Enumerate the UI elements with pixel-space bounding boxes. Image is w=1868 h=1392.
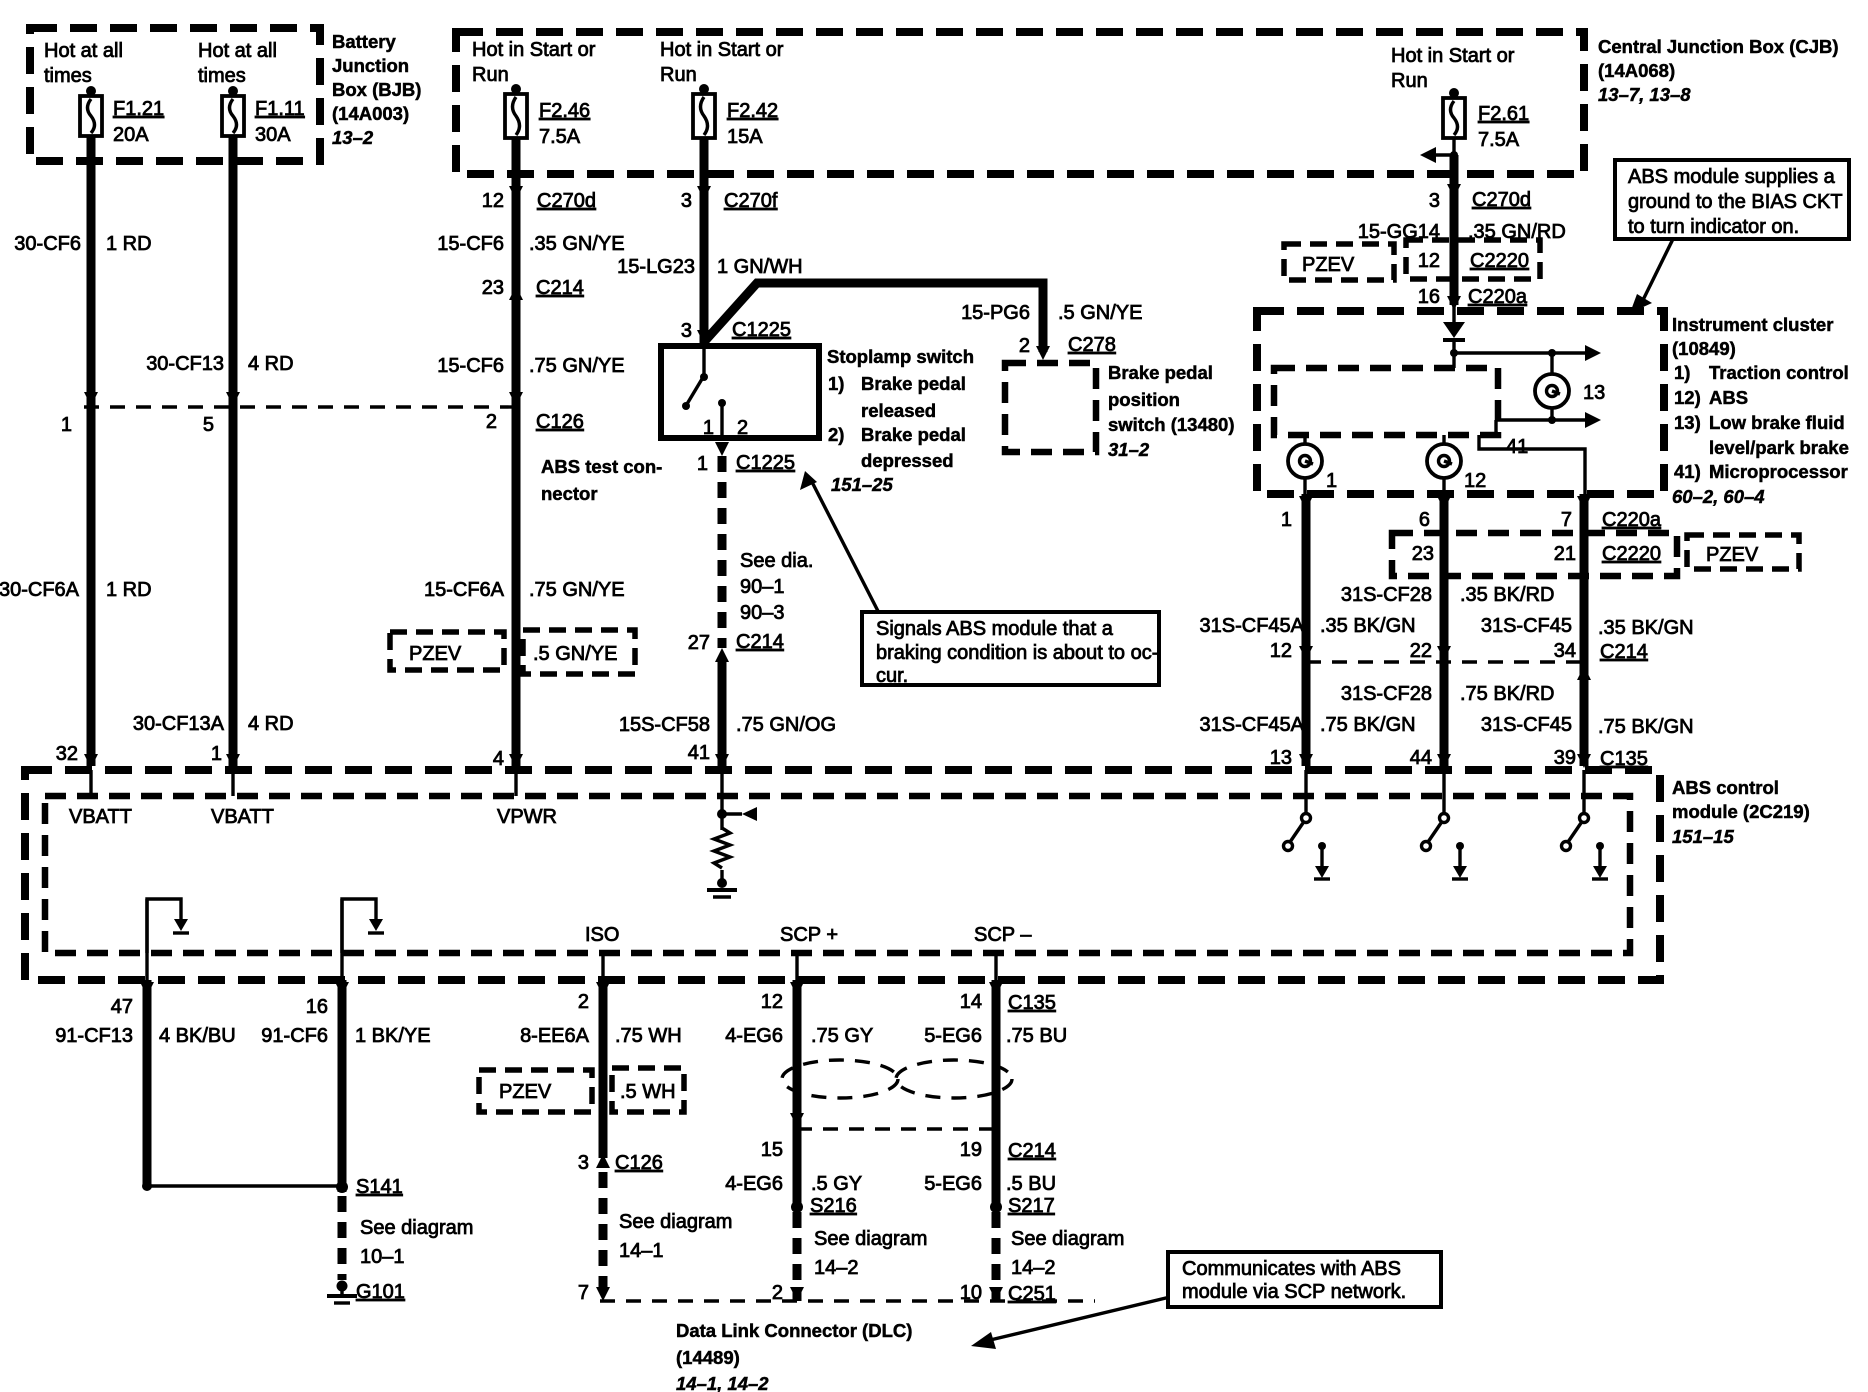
svg-text:See dia.: See dia.	[740, 550, 813, 572]
svg-text:27: 27	[688, 632, 710, 654]
splice S217	[990, 1195, 1124, 1279]
node VPWR pin 4 stub	[497, 770, 557, 828]
svg-text:4 BK/BU: 4 BK/BU	[159, 1025, 236, 1047]
svg-text:PZEV: PZEV	[409, 643, 462, 665]
svg-text:ABS module supplies a: ABS module supplies a	[1628, 166, 1836, 188]
stub wire pin 16	[340, 899, 343, 980]
PZEV option box (C2220)	[1687, 535, 1799, 569]
svg-text:7.5A: 7.5A	[1478, 129, 1520, 151]
svg-text:.75 WH: .75 WH	[615, 1025, 682, 1047]
wire 30-CF6 1 RD (F1.21 to ABS module pin 32)	[0, 136, 152, 768]
svg-text:1 RD: 1 RD	[106, 233, 152, 255]
svg-text:1: 1	[697, 453, 708, 475]
wire 15-PG6 .5 GN/YE (branch to brake pedal position switch)	[704, 283, 1142, 360]
svg-text:(14A003): (14A003)	[332, 103, 409, 124]
wire label 15-CF6 .35 GN/YE	[437, 233, 624, 255]
svg-text:5-EG6: 5-EG6	[924, 1173, 982, 1195]
svg-text:F2.46: F2.46	[539, 100, 590, 122]
callout: Signals ABS module note with arrow to C1225	[800, 471, 1159, 687]
svg-text:44: 44	[1410, 747, 1432, 769]
svg-text:See diagram: See diagram	[360, 1217, 473, 1239]
svg-text:21: 21	[1554, 543, 1576, 565]
node Hot at all times (fuse F1.11 feed)	[198, 40, 277, 87]
svg-text:.75 GN/YE: .75 GN/YE	[529, 355, 625, 377]
svg-text:Microprocessor: Microprocessor	[1709, 461, 1848, 482]
svg-text:10–1: 10–1	[360, 1246, 405, 1268]
svg-text:Junction: Junction	[332, 55, 409, 76]
pin 3 connector C270d	[1429, 189, 1531, 212]
wire 31S-CF45 BK/GN (cluster pin 7 to ABS module pin 39)	[1481, 494, 1694, 768]
svg-text:2: 2	[486, 411, 497, 433]
svg-text:13): 13)	[1674, 412, 1701, 433]
svg-text:2: 2	[772, 1282, 783, 1304]
svg-text:Signals ABS module that a: Signals ABS module that a	[876, 618, 1114, 640]
svg-text:.75 GN/YE: .75 GN/YE	[529, 579, 625, 601]
fuse F2.61 7.5A	[1443, 88, 1529, 151]
wire 41 microprocessor to pin 7	[1479, 435, 1585, 494]
svg-text:31S-CF28: 31S-CF28	[1341, 683, 1432, 705]
svg-text:See diagram: See diagram	[619, 1211, 732, 1233]
svg-text:90–1: 90–1	[740, 576, 785, 598]
svg-text:times: times	[198, 65, 246, 87]
svg-text:C270d: C270d	[537, 190, 596, 212]
svg-text:47: 47	[111, 996, 133, 1018]
node Hot in Start or Run (F2.46 feed)	[472, 39, 596, 86]
node Hot at all times (fuse F1.21 feed)	[44, 40, 123, 87]
node Hot in Start or Run (F2.61 feed)	[1391, 45, 1515, 92]
wire label 15-CF6 .75 GN/YE	[437, 355, 624, 377]
indicator lamp 1 traction control	[1288, 435, 1337, 494]
Central Junction Box (CJB) 14A068 dashed enclosure	[456, 32, 1839, 174]
svg-text:12): 12)	[1674, 387, 1701, 408]
wire splice link S141 horizontal	[147, 1184, 342, 1187]
svg-text:14: 14	[960, 991, 982, 1013]
svg-text:4 RD: 4 RD	[248, 353, 294, 375]
svg-text:4-EG6: 4-EG6	[725, 1025, 783, 1047]
svg-text:14–2: 14–2	[1011, 1257, 1056, 1279]
pin 34 connector C214	[1554, 640, 1648, 663]
svg-text:15-PG6: 15-PG6	[961, 302, 1030, 324]
node BIAS pin 41 with branch arrow	[717, 770, 757, 830]
svg-text:C214: C214	[1600, 641, 1648, 663]
svg-text:braking condition is about to: braking condition is about to oc-	[876, 642, 1158, 664]
wire 30-CF13 4 RD (F1.11 to ABS module pin 1)	[133, 136, 294, 768]
svg-text:7: 7	[1561, 509, 1572, 531]
wire 15S-CF58 .75 GN/OG (stoplamp switch to ABS module pin 41)	[619, 456, 836, 768]
svg-text:G101: G101	[356, 1281, 405, 1303]
svg-text:6: 6	[1419, 509, 1430, 531]
PZEV wire value box .5 WH	[612, 1068, 684, 1112]
svg-text:31S-CF28: 31S-CF28	[1341, 584, 1432, 606]
svg-text:VBATT: VBATT	[211, 806, 274, 828]
resistor (BIAS pull-up)	[714, 828, 730, 868]
svg-text:1): 1)	[1674, 362, 1690, 383]
wire 5-EG6 BU (SCP- to DLC pin 10)	[924, 980, 1067, 1301]
svg-text:Brake pedal: Brake pedal	[1108, 362, 1213, 383]
svg-text:19: 19	[960, 1139, 982, 1161]
svg-text:ground to the BIAS CKT: ground to the BIAS CKT	[1628, 191, 1843, 213]
svg-text:S217: S217	[1008, 1195, 1055, 1217]
svg-text:15-CF6: 15-CF6	[437, 355, 504, 377]
svg-text:.35 GN/YE: .35 GN/YE	[529, 233, 625, 255]
wire F2.61 output with branch arrow inside CJB	[1420, 138, 1458, 163]
svg-text:30-CF13A: 30-CF13A	[133, 713, 225, 735]
svg-text:8-EE6A: 8-EE6A	[520, 1025, 590, 1047]
connector C2220 dashed box pins 23 / 21	[1392, 533, 1677, 576]
svg-text:41: 41	[688, 742, 710, 764]
svg-text:31S-CF45: 31S-CF45	[1481, 714, 1572, 736]
svg-text:13: 13	[1583, 382, 1605, 404]
svg-text:ABS control: ABS control	[1672, 777, 1779, 798]
pin 2 connector C126	[486, 411, 584, 433]
ABS control module (2C219) outer dashed enclosure	[25, 770, 1810, 980]
wire label 15-CF6A .75 GN/YE	[424, 579, 625, 601]
svg-text:.5 GN/YE: .5 GN/YE	[533, 643, 617, 665]
PZEV option box (ISO wire)	[479, 1070, 592, 1112]
svg-text:15-CF6: 15-CF6	[437, 233, 504, 255]
svg-text:1): 1)	[828, 373, 844, 394]
svg-text:C1225: C1225	[732, 319, 791, 341]
wire 15-LG23 1 GN/WH (F2.42 to stoplamp switch)	[617, 138, 802, 346]
svg-text:Central Junction Box (CJB): Central Junction Box (CJB)	[1598, 36, 1839, 57]
svg-text:F1.21: F1.21	[113, 98, 164, 120]
svg-text:F2.42: F2.42	[727, 100, 778, 122]
svg-text:32: 32	[56, 743, 78, 765]
svg-text:1: 1	[1326, 470, 1337, 492]
node VBATT pin 1 stub	[211, 770, 274, 828]
PZEV option box (VPWR wire)	[390, 632, 504, 670]
svg-text:C2220: C2220	[1602, 543, 1661, 565]
node VBATT pin 32 stub	[69, 770, 132, 828]
svg-text:12: 12	[482, 190, 504, 212]
svg-text:Hot in Start or: Hot in Start or	[1391, 45, 1515, 67]
svg-text:39: 39	[1554, 747, 1576, 769]
stoplamp switch box	[661, 346, 819, 438]
svg-text:30A: 30A	[255, 124, 291, 146]
svg-text:1 GN/WH: 1 GN/WH	[717, 256, 803, 278]
svg-text:Box (BJB): Box (BJB)	[332, 79, 421, 100]
svg-text:22: 22	[1410, 640, 1432, 662]
svg-text:See diagram: See diagram	[1011, 1228, 1124, 1250]
svg-text:31S-CF45A: 31S-CF45A	[1200, 615, 1305, 637]
svg-text:14–2: 14–2	[814, 1257, 859, 1279]
svg-text:12: 12	[761, 991, 783, 1013]
wire 91-CF13 4 BK/BU (pin 47 to splice S141)	[55, 980, 236, 1191]
brake pedal position switch (13480) dashed box	[1005, 362, 1234, 460]
svg-text:31S-CF45: 31S-CF45	[1481, 615, 1572, 637]
svg-text:Run: Run	[660, 64, 697, 86]
wire 31S-CF45A BK/GN (cluster pin 1 to ABS module pin 13)	[1200, 494, 1416, 768]
svg-text:level/park brake: level/park brake	[1709, 437, 1849, 458]
stoplamp switch contacts and blade	[682, 349, 726, 438]
fuse F1.11 30A	[222, 86, 305, 146]
svg-text:13–2: 13–2	[332, 127, 374, 148]
splice S216	[791, 1195, 927, 1279]
svg-text:1 RD: 1 RD	[106, 579, 152, 601]
svg-text:.75 BK/RD: .75 BK/RD	[1460, 683, 1554, 705]
svg-text:60–2, 60–4: 60–2, 60–4	[1672, 486, 1765, 507]
svg-text:.75 BK/GN: .75 BK/GN	[1320, 714, 1416, 736]
node Hot in Start or Run (F2.42 feed)	[660, 39, 784, 86]
svg-text:C220a: C220a	[1602, 509, 1662, 531]
svg-text:Traction control: Traction control	[1709, 362, 1849, 383]
svg-text:C270f: C270f	[724, 190, 778, 212]
svg-text:4: 4	[493, 748, 504, 770]
svg-text:S141: S141	[356, 1176, 403, 1198]
ground (pin 39 switch)	[1592, 842, 1608, 879]
wire 4-EG6 GY (SCP+ to DLC pin 2)	[725, 980, 873, 1301]
svg-text:23: 23	[482, 277, 504, 299]
pin 23 connector C214	[482, 277, 584, 299]
PZEV option box (15-GG14 wire)	[1284, 244, 1394, 280]
svg-text:4 RD: 4 RD	[248, 713, 294, 735]
ground hook (pin 47 internal)	[147, 899, 189, 953]
fuse F2.42 15A	[693, 84, 778, 148]
wire VPWR 15-CF6 (F2.46 down to ABS module pin 4)	[509, 138, 523, 768]
svg-text:15S-CF58: 15S-CF58	[619, 714, 710, 736]
node lamp13 output with arrow right	[1496, 412, 1601, 435]
splice S141	[336, 1176, 473, 1268]
svg-text:PZEV: PZEV	[1302, 254, 1355, 276]
svg-text:151–15: 151–15	[1672, 826, 1734, 847]
svg-text:1 BK/YE: 1 BK/YE	[355, 1025, 431, 1047]
svg-text:7: 7	[578, 1282, 589, 1304]
ground (resistor return)	[707, 870, 737, 897]
wire 15-GG14 .35 GN/RD (F2.61 to instrument cluster)	[1358, 155, 1566, 326]
svg-text:15: 15	[761, 1139, 783, 1161]
svg-text:Hot at all: Hot at all	[198, 40, 277, 62]
svg-text:12: 12	[1464, 470, 1486, 492]
svg-text:C214: C214	[736, 631, 784, 653]
svg-text:times: times	[44, 65, 92, 87]
svg-text:F1.11: F1.11	[255, 98, 305, 120]
ABS test connector label	[541, 456, 662, 504]
svg-text:Communicates with ABS: Communicates with ABS	[1182, 1258, 1401, 1280]
svg-text:16: 16	[1418, 286, 1440, 308]
svg-text:31S-CF45A: 31S-CF45A	[1200, 714, 1305, 736]
pin 1 connector C1225 (below stoplamp switch)	[697, 442, 795, 475]
svg-text:91-CF13: 91-CF13	[55, 1025, 133, 1047]
wire 91-CF6 1 BK/YE (pin 16 to G101)	[261, 980, 430, 1192]
fuse F2.46 7.5A	[505, 84, 590, 148]
callout: Communicates with ABS module via SCP network with arrow to DLC	[971, 1252, 1441, 1349]
svg-text:depressed: depressed	[861, 450, 954, 471]
svg-text:SCP +: SCP +	[780, 924, 838, 946]
svg-text:Low brake fluid: Low brake fluid	[1709, 412, 1845, 433]
svg-text:nector: nector	[541, 483, 598, 504]
Data Link Connector (DLC) label	[676, 1320, 912, 1392]
svg-text:ABS: ABS	[1709, 387, 1748, 408]
svg-text:C214: C214	[1008, 1140, 1056, 1162]
svg-text:23: 23	[1412, 543, 1434, 565]
svg-text:position: position	[1108, 389, 1180, 410]
svg-text:30-CF6A: 30-CF6A	[0, 579, 80, 601]
svg-text:C270d: C270d	[1472, 189, 1531, 211]
svg-text:41: 41	[1506, 436, 1528, 458]
svg-text:S216: S216	[810, 1195, 857, 1217]
stoplamp switch legend	[827, 346, 974, 495]
svg-text:ISO: ISO	[585, 924, 619, 946]
svg-text:151–25: 151–25	[831, 474, 893, 495]
svg-text:15A: 15A	[727, 126, 763, 148]
diode (bias circuit)	[1443, 322, 1465, 353]
svg-text:.35 BK/RD: .35 BK/RD	[1460, 584, 1554, 606]
svg-text:13: 13	[1270, 747, 1292, 769]
svg-text:(14489): (14489)	[676, 1347, 740, 1368]
svg-text:.5 WH: .5 WH	[620, 1081, 676, 1103]
svg-text:2: 2	[737, 417, 748, 439]
pin 2 connector C278	[1019, 334, 1116, 357]
pin 27 connector C214	[688, 631, 784, 654]
stub wire pin 47	[145, 899, 148, 980]
svg-text:C1225: C1225	[736, 452, 795, 474]
svg-text:.5 GY: .5 GY	[811, 1173, 862, 1195]
ISO see diagram note	[619, 1211, 732, 1262]
svg-text:12: 12	[1270, 640, 1292, 662]
svg-text:(14A068): (14A068)	[1598, 60, 1675, 81]
svg-text:14–1, 14–2: 14–1, 14–2	[676, 1373, 769, 1392]
svg-text:released: released	[861, 400, 936, 421]
ground (pin 44 switch)	[1452, 842, 1468, 879]
svg-text:F2.61: F2.61	[1478, 103, 1529, 125]
svg-text:4-EG6: 4-EG6	[725, 1173, 783, 1195]
svg-text:31–2: 31–2	[1108, 439, 1150, 460]
svg-text:C126: C126	[536, 411, 584, 433]
Battery Junction Box (BJB) 14A003 dashed enclosure	[30, 28, 421, 161]
svg-text:C126: C126	[615, 1152, 663, 1174]
pin 10 connector C251 (DLC)	[960, 1282, 1056, 1305]
pin 3 connector C1225	[681, 319, 791, 342]
node bias junction with arrow right	[1450, 345, 1601, 368]
svg-text:15-CF6A: 15-CF6A	[424, 579, 505, 601]
svg-text:30-CF13: 30-CF13	[146, 353, 224, 375]
pin 3 connector C270f	[681, 190, 778, 212]
svg-text:90–3: 90–3	[740, 602, 785, 624]
PZEV wire value box .5 GN/YE	[523, 630, 635, 674]
svg-text:Hot in Start or: Hot in Start or	[472, 39, 596, 61]
svg-text:Brake pedal: Brake pedal	[861, 424, 966, 445]
svg-text:ABS test con-: ABS test con-	[541, 456, 662, 477]
svg-text:cur.: cur.	[876, 665, 908, 687]
svg-text:See diagram: See diagram	[814, 1228, 927, 1250]
svg-text:Run: Run	[472, 64, 509, 86]
svg-text:C135: C135	[1008, 992, 1056, 1014]
svg-text:2): 2)	[828, 424, 844, 445]
Instrument cluster (10849) dashed enclosure	[1257, 311, 1849, 507]
pin 39 connector C135	[1554, 747, 1648, 770]
svg-text:Hot in Start or: Hot in Start or	[660, 39, 784, 61]
indicator lamp 12 ABS	[1427, 435, 1486, 494]
switch (ABS module pin 44 to ground)	[1422, 770, 1449, 851]
svg-text:Stoplamp switch: Stoplamp switch	[827, 346, 974, 367]
svg-text:VBATT: VBATT	[69, 806, 132, 828]
node SCP -	[974, 924, 1032, 980]
svg-text:15-LG23: 15-LG23	[617, 256, 695, 278]
svg-text:1: 1	[211, 743, 222, 765]
svg-text:3: 3	[681, 190, 692, 212]
node ISO	[585, 924, 619, 980]
pin 12 connector C2220 dashed box	[1406, 240, 1540, 279]
wire 31S-CF28 BK/RD (cluster pin 6 to ABS module pin 44)	[1341, 494, 1555, 768]
svg-text:C220a: C220a	[1468, 286, 1528, 308]
svg-text:12: 12	[1418, 250, 1440, 272]
svg-text:91-CF6: 91-CF6	[261, 1025, 328, 1047]
twisted pair symbol SCP bus	[782, 1060, 1012, 1098]
pin 16 connector C220a	[1418, 286, 1528, 308]
svg-text:1: 1	[703, 417, 714, 439]
svg-text:13–7, 13–8: 13–7, 13–8	[1598, 84, 1691, 105]
pin 3 connector C126 (ISO wire)	[578, 1152, 663, 1174]
svg-text:3: 3	[681, 320, 692, 342]
svg-text:SCP –: SCP –	[974, 924, 1032, 946]
svg-text:Brake pedal: Brake pedal	[861, 373, 966, 394]
svg-text:module via SCP network.: module via SCP network.	[1182, 1281, 1406, 1303]
svg-text:.35 BK/GN: .35 BK/GN	[1598, 617, 1694, 639]
switch (ABS module pin 13 to ground)	[1284, 770, 1311, 851]
svg-text:15-GG14: 15-GG14	[1358, 221, 1440, 243]
svg-text:Hot at all: Hot at all	[44, 40, 123, 62]
indicator lamp 13 low brake fluid	[1535, 353, 1605, 420]
svg-text:.5 BU: .5 BU	[1006, 1173, 1056, 1195]
svg-text:1: 1	[1281, 509, 1292, 531]
ground hook (pin 16 internal)	[342, 899, 384, 953]
svg-text:.75 GY: .75 GY	[811, 1025, 873, 1047]
pin 7 connector C220a	[1561, 509, 1662, 531]
callout: ABS module supplies ground note with arrow to cluster	[1615, 160, 1849, 313]
wire S141 to G101 dashed	[338, 1196, 347, 1280]
svg-text:C214: C214	[536, 277, 584, 299]
svg-text:(10849): (10849)	[1672, 338, 1736, 359]
instrument cluster inner dashed module	[1274, 368, 1498, 435]
switch (ABS module pin 39 to ground)	[1562, 770, 1589, 851]
svg-text:Data Link Connector (DLC): Data Link Connector (DLC)	[676, 1320, 912, 1341]
svg-text:to turn indicator on.: to turn indicator on.	[1628, 216, 1799, 238]
svg-text:3: 3	[1429, 190, 1440, 212]
svg-text:5-EG6: 5-EG6	[924, 1025, 982, 1047]
svg-text:.75 GN/OG: .75 GN/OG	[736, 714, 836, 736]
ABS control module inner dashed box	[45, 796, 1630, 953]
wire 8-EE6A .75 WH (ISO to DLC pin 7)	[520, 980, 682, 1301]
svg-text:VPWR: VPWR	[497, 806, 557, 828]
node SCP +	[780, 924, 838, 980]
svg-text:Battery: Battery	[332, 31, 396, 52]
svg-text:3: 3	[578, 1152, 589, 1174]
svg-text:.75 BU: .75 BU	[1006, 1025, 1067, 1047]
svg-text:.35 BK/GN: .35 BK/GN	[1320, 615, 1416, 637]
svg-text:Instrument cluster: Instrument cluster	[1672, 314, 1833, 335]
ground (pin 13 switch)	[1314, 842, 1330, 879]
svg-text:C2220: C2220	[1470, 250, 1529, 272]
svg-text:C278: C278	[1068, 334, 1116, 356]
svg-text:20A: 20A	[113, 124, 149, 146]
svg-text:Run: Run	[1391, 70, 1428, 92]
connector C126 dashed line	[84, 405, 518, 408]
svg-text:16: 16	[306, 996, 328, 1018]
svg-text:2: 2	[1019, 335, 1030, 357]
svg-text:PZEV: PZEV	[499, 1081, 552, 1103]
svg-text:7.5A: 7.5A	[539, 126, 581, 148]
fuse F1.21 20A	[80, 86, 164, 146]
svg-text:14–1: 14–1	[619, 1240, 664, 1262]
connector C214 dashed line (cluster wires)	[1306, 660, 1584, 663]
svg-text:module (2C219): module (2C219)	[1672, 801, 1810, 822]
pin 12 connector C270d	[482, 190, 596, 212]
svg-text:PZEV: PZEV	[1706, 544, 1759, 566]
Data Link Connector (DLC) dashed line	[600, 1299, 1095, 1302]
svg-text:30-CF6: 30-CF6	[14, 233, 81, 255]
ground G101	[327, 1281, 405, 1304]
svg-text:.5 GN/YE: .5 GN/YE	[1058, 302, 1142, 324]
